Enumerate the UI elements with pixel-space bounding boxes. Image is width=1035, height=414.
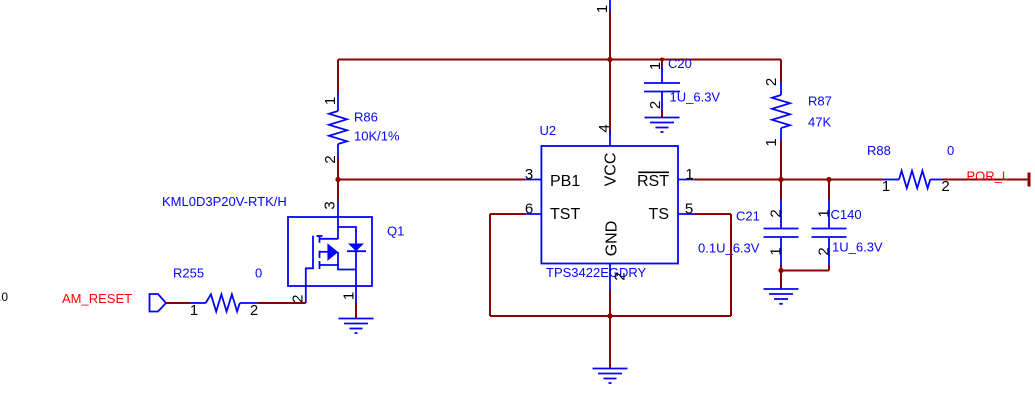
pin 3 PB1 [525,166,581,190]
svg-text:2: 2 [941,178,949,195]
svg-text:3: 3 [322,201,339,209]
pin 6 TST [525,201,581,224]
svg-text:10K/1%: 10K/1% [354,129,400,144]
wire: cap node to ground [780,271,782,290]
wire: rail down to R87 [780,60,782,83]
gate path [306,236,313,303]
channel segments [317,235,323,237]
svg-text:0.1U_6.3V: 0.1U_6.3V [698,241,760,256]
svg-text:2: 2 [612,272,629,280]
resistor R86 [322,93,400,164]
svg-text:1: 1 [341,292,358,300]
pin 1 RST [637,166,695,190]
svg-text:U2: U2 [540,123,557,138]
svg-text:C21: C21 [736,209,760,224]
wire: RST to R88 [695,179,883,181]
capacitor C140 [812,180,883,271]
svg-text:.0: .0 [0,290,8,304]
transistor Q1 KML0D3P20V-RTK/H [162,194,404,303]
pin 1 of off-page component at top [594,0,611,13]
svg-text:KML0D3P20V-RTK/H: KML0D3P20V-RTK/H [162,194,287,209]
off-page port stub right edge [1028,173,1031,187]
wire: R87 bottom to RST net [780,141,782,180]
off-page port AM_RESET [62,291,166,312]
svg-text:1U_6.3V: 1U_6.3V [670,90,721,105]
svg-text:1U_6.3V: 1U_6.3V [832,240,883,255]
wire: R86 bottom to node [337,158,339,180]
svg-text:2: 2 [763,78,780,86]
wire: node to PB1 pin 3 [338,179,525,181]
svg-text:R255: R255 [173,266,204,281]
resistor R88 [867,143,954,195]
junction GND/loop [607,313,612,318]
capacitor C21 [698,180,799,271]
svg-text:VCC: VCC [603,153,620,187]
svg-text:2: 2 [768,209,785,217]
wire: top horizontal rail [338,59,781,61]
svg-text:2: 2 [250,302,258,319]
body stub and arrow [320,251,328,253]
ground for U2 GND [593,369,628,384]
svg-text:4: 4 [596,124,613,132]
drain pin 3 [337,201,339,239]
capacitor C20 [644,56,720,118]
svg-text:2: 2 [290,295,307,303]
svg-text:R88: R88 [867,143,891,158]
junction caps ground node [778,268,783,273]
svg-text:47K: 47K [808,115,831,130]
resistor R255 [173,266,262,320]
svg-text:1: 1 [763,138,780,146]
svg-text:TS: TS [649,206,669,223]
svg-text:1: 1 [647,62,664,70]
source stub [320,265,357,270]
pin 2 GND [604,221,629,290]
svg-text:1: 1 [594,5,611,13]
pin 5 TS [649,201,695,224]
svg-text:1: 1 [190,302,198,319]
wire: R86 top connection [337,60,339,94]
svg-text:PB1: PB1 [550,173,580,190]
svg-text:C20: C20 [668,56,692,71]
junction RST/R87/C21 [778,177,783,182]
svg-text:1: 1 [322,97,339,105]
junction C140 tap [826,177,831,182]
svg-text:1: 1 [882,178,890,195]
svg-text:6: 6 [525,201,533,218]
junction at top rail / VCC wire [607,57,612,62]
svg-text:2: 2 [647,101,664,109]
wire: Q1 source to ground [355,303,357,319]
svg-text:1: 1 [768,247,785,255]
pin 4 VCC [596,124,620,186]
svg-text:GND: GND [604,221,621,257]
wire: C140 bottom link to C21 bottom [781,270,829,272]
svg-text:Q1: Q1 [387,224,404,239]
svg-text:2: 2 [816,247,833,255]
wire: top vertical to VCC [609,12,611,134]
svg-text:0: 0 [255,266,262,281]
svg-text:RST: RST [637,173,669,190]
svg-text:TST: TST [550,206,580,223]
svg-text:TPS3422EGDRY: TPS3422EGDRY [546,265,647,280]
svg-text:1: 1 [685,166,693,183]
body diode [348,244,364,252]
svg-text:R87: R87 [808,94,832,109]
svg-text:3: 3 [525,166,533,183]
svg-text:AM_RESET: AM_RESET [62,291,132,306]
svg-text:0: 0 [947,143,954,158]
svg-text:5: 5 [685,201,693,218]
junction at top rail / C20 [660,58,664,62]
ground for C21/C140 [764,289,799,304]
svg-text:C140: C140 [831,207,862,222]
wire: R88 to POR_L port [942,179,1029,181]
op-amp U2 body TPS3422EGDRY [540,123,679,280]
wire: R255 to Q1 gate [257,302,305,304]
node junction R86/PB1/Q1 [335,177,340,182]
ground for Q1 [339,319,374,334]
ground for C20 [645,118,680,133]
wire: GND pin to loop [609,290,611,369]
wire: port to R255 [166,302,190,304]
wire: node down to Q1 drain [337,180,339,202]
drain branch to diode [338,227,356,244]
drain stub [320,238,339,240]
wire: TST loop left/bottom/right [490,214,731,316]
resistor R87 [763,78,832,147]
svg-text:2: 2 [322,155,339,163]
svg-text:R86: R86 [354,110,378,125]
svg-text:POR_L: POR_L [967,169,1010,184]
